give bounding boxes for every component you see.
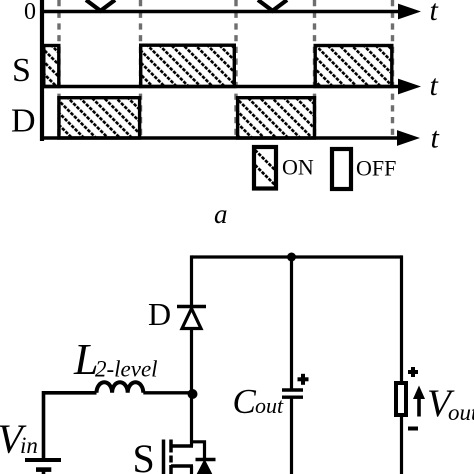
MOSFET S gate line (162, 440, 166, 474)
wire: Cout down (290, 397, 293, 474)
time axis row 0 (40, 10, 402, 14)
MOSFET S channel segment 2 (169, 456, 173, 463)
S pulse 2 (141, 45, 235, 86)
D axis arrowhead (397, 130, 420, 146)
svg-text:D: D (11, 103, 36, 140)
dashed gridline x=314 (313, 0, 316, 140)
S time axis (40, 85, 402, 89)
MOSFET S drain bar (171, 444, 193, 448)
S pulse 1 (44, 46, 59, 87)
battery Vin short plate (36, 467, 51, 472)
svg-text:2-level: 2-level (95, 357, 158, 382)
wire: source down (190, 466, 193, 474)
svg-text:ON: ON (282, 155, 314, 180)
carrier valley 2 (258, 0, 287, 11)
svg-text:out: out (448, 400, 474, 425)
wire: inductor to switch node (143, 391, 191, 394)
plus polarity Cout (298, 377, 309, 381)
wire: top rail to Cout (290, 257, 293, 390)
MOSFET S source bar (171, 464, 193, 468)
vertical signal axis (40, 0, 44, 141)
battery Vin long plate (25, 458, 61, 462)
wire: top rail (192, 255, 402, 258)
legend ON box hatch line 1 (255, 150, 275, 170)
svg-text:S: S (12, 52, 31, 89)
minus polarity Vout (408, 427, 418, 431)
D time axis (40, 136, 402, 140)
svg-text:0: 0 (24, 0, 36, 25)
svg-text:in: in (20, 433, 38, 458)
plus polarity Vout (408, 370, 418, 374)
node: switch node dot (188, 389, 198, 399)
S axis arrowhead (398, 79, 421, 95)
axis arrowhead row 0 (398, 4, 421, 20)
legend ON box (254, 147, 276, 189)
dashed gridline x=392 (391, 0, 394, 140)
svg-text:t: t (430, 0, 439, 27)
inductor L (97, 382, 144, 393)
body diode cathode bar (196, 458, 216, 462)
diode D cathode bar (177, 305, 206, 309)
capacitor Cout top plate (282, 388, 303, 391)
wire: top rail to load (400, 255, 403, 381)
dashed gridline x=59 (57, 0, 60, 140)
svg-text:S: S (133, 436, 155, 474)
wire: diode anode to switch node (190, 329, 193, 447)
svg-text:t: t (430, 69, 439, 102)
legend ON box hatch line 2 (255, 165, 275, 185)
legend OFF box (332, 149, 351, 189)
MOSFET S channel segment 1 (169, 440, 173, 453)
svg-text:t: t (431, 122, 440, 155)
capacitor Cout bottom plate (282, 396, 303, 399)
S pulse 3 (315, 46, 392, 87)
svg-text:C: C (233, 382, 257, 421)
dashed gridline x=140 (139, 0, 142, 140)
svg-text:D: D (148, 296, 171, 332)
svg-text:a: a (214, 199, 228, 229)
arrow Vout (417, 393, 421, 417)
D pulse 1 (59, 98, 140, 138)
diode D triangle (182, 309, 201, 329)
wire: load down (400, 415, 403, 474)
D pulse 2 (238, 98, 315, 138)
resistor load Vout (396, 383, 406, 415)
wire: top rail to diode cathode (190, 255, 193, 306)
node: output junction dot (287, 253, 296, 262)
svg-text:out: out (255, 393, 284, 418)
dashed gridline x=236 (234, 0, 237, 140)
wire: body diode stub (192, 442, 205, 460)
carrier valley 1 (86, 0, 115, 11)
body diode triangle (196, 462, 213, 474)
wire: battery stub down (42, 470, 46, 474)
wire: Vin to inductor (44, 393, 97, 460)
MOSFET S channel segment 3 (169, 465, 173, 474)
svg-text:OFF: OFF (356, 156, 396, 181)
